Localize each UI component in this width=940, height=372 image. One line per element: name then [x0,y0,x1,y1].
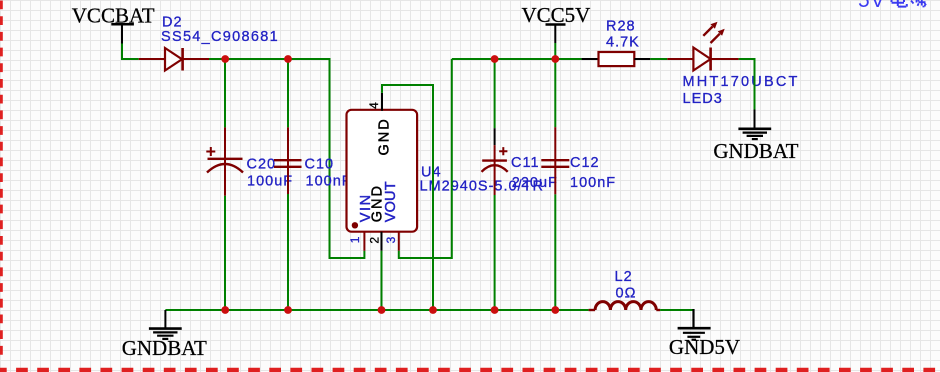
sheet border bottom (red dashed) [0,368,940,372]
wire pin2 to bottom rail [381,251,383,310]
svg-text:VCC5V: VCC5V [521,3,590,27]
svg-text:4: 4 [367,102,381,109]
svg-text:MHT170UBCT: MHT170UBCT [683,74,800,90]
wire VCCBAT to D2 [122,44,139,60]
svg-text:VOUT: VOUT [383,181,399,222]
svg-text:LED3: LED3 [683,91,723,107]
wire R28 to LED3 [650,58,667,60]
svg-text:C11: C11 [511,155,540,171]
sheet border left (red dashed) [0,1,3,361]
wire C12 bottom drop [554,194,556,310]
ground GND5V [669,309,740,359]
svg-text:GND: GND [377,117,393,155]
svg-text:2: 2 [367,237,381,244]
ground GNDBAT (bottom left) [122,310,207,360]
pin 1 VIN [348,193,374,250]
node junction dots [221,55,559,314]
svg-text:5V: 5V [858,0,886,12]
svg-text:SS54_C908681: SS54_C908681 [161,29,279,45]
svg-text:1: 1 [348,236,362,243]
svg-text:3: 3 [384,236,398,243]
wire top-left rail [209,59,364,258]
wire C11 bottom drop [494,195,496,310]
wire C10 bottom drop [287,194,289,310]
svg-text:L2: L2 [615,269,633,285]
svg-text:GND5V: GND5V [669,335,740,359]
wire pin4 to GND rail [382,85,433,310]
wire C12 top drop [554,59,556,127]
wire L2 to GND5V [660,309,693,311]
wire pin3 VOUT to top rail [399,59,452,258]
wire top-right rail [452,58,582,60]
svg-text:GNDBAT: GNDBAT [713,139,798,163]
svg-text:100uF: 100uF [247,173,293,189]
wire C20 bottom drop [224,196,226,310]
wire C11 top drop [494,59,496,128]
capacitor C12 [541,127,616,194]
svg-text:100nF: 100nF [306,173,352,189]
pin 3 VOUT [383,181,399,251]
diode D2 [139,15,279,71]
svg-text:C12: C12 [570,155,600,171]
svg-text:220uF: 220uF [512,175,558,191]
inductor L2 [589,269,661,310]
power flag VCC5V [521,3,590,43]
svg-text:100nF: 100nF [570,175,616,191]
LED LED3 MHT170UBCT [667,22,799,108]
capacitor C10 [274,127,352,194]
wire LED3 to GNDBAT [739,59,755,110]
svg-text:0Ω: 0Ω [616,285,637,301]
ground GNDBAT (right) [713,110,798,163]
wire rail to R28 [566,58,582,60]
power flag VCCBAT [72,3,155,43]
capacitor C11 [482,128,558,195]
voltage regulator U4 LM2940S-5.0/TR [347,110,544,232]
svg-text:R28: R28 [606,19,636,35]
node sheet title 5V电源 [858,0,926,12]
capacitor C20 [206,127,293,195]
svg-text:C10: C10 [305,156,335,172]
svg-text:4.7K: 4.7K [606,34,640,50]
svg-text:D2: D2 [162,15,183,31]
pin 4 GND top [367,93,392,156]
svg-text:C20: C20 [247,156,277,172]
wire C20 top drop [224,59,226,127]
svg-text:GNDBAT: GNDBAT [122,336,207,360]
bottom rail wire [165,309,588,311]
resistor R28 [582,19,651,67]
pin 2 GND bottom [367,184,385,251]
wire C10 top drop [287,59,289,127]
wire VCC5V stub [554,43,556,59]
